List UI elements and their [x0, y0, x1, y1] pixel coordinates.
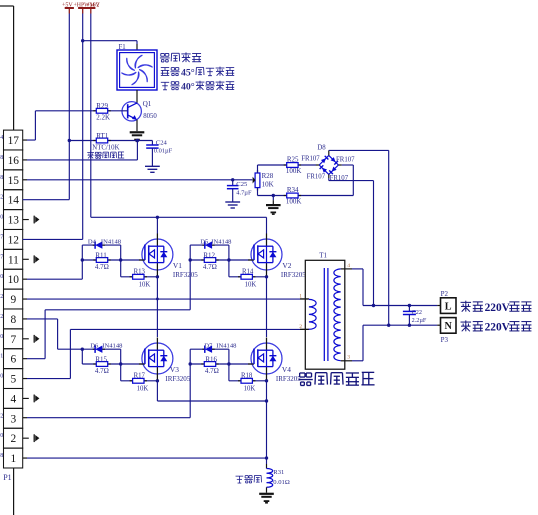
- svg-text:D4: D4: [88, 238, 97, 245]
- svg-text:8: 8: [0, 175, 3, 181]
- svg-text:7: 7: [0, 254, 3, 260]
- svg-text:IN4148: IN4148: [211, 238, 232, 245]
- svg-text:Q1: Q1: [143, 100, 152, 108]
- svg-text:2: 2: [0, 294, 3, 300]
- svg-text:R28: R28: [262, 172, 274, 180]
- svg-text:1: 1: [299, 293, 302, 299]
- svg-text:IN4148: IN4148: [102, 342, 123, 349]
- svg-text:100K: 100K: [286, 198, 302, 206]
- svg-text:R16: R16: [205, 355, 217, 363]
- svg-text:220V: 220V: [485, 322, 511, 334]
- svg-text:4.7Ω: 4.7Ω: [95, 263, 109, 271]
- svg-text:100K: 100K: [286, 167, 302, 175]
- svg-text:IN4148: IN4148: [216, 342, 237, 349]
- svg-text:T1: T1: [319, 252, 327, 260]
- svg-text:4: 4: [10, 393, 16, 405]
- svg-text:NTC/10K: NTC/10K: [92, 144, 119, 151]
- svg-text:R18: R18: [241, 373, 253, 380]
- svg-text:RT1: RT1: [96, 132, 109, 140]
- svg-text:V3: V3: [170, 365, 179, 374]
- svg-text:7: 7: [10, 334, 16, 346]
- svg-text:FR107: FR107: [336, 157, 355, 164]
- svg-text:V4: V4: [282, 365, 291, 374]
- svg-text:R34: R34: [287, 186, 299, 194]
- svg-text:13: 13: [8, 215, 20, 227]
- svg-text:R25: R25: [287, 155, 299, 163]
- svg-text:IN4148: IN4148: [101, 238, 122, 245]
- svg-text:9: 9: [10, 294, 16, 306]
- svg-text:12: 12: [8, 234, 20, 246]
- svg-text:V2: V2: [282, 261, 291, 270]
- svg-text:0: 0: [0, 334, 3, 340]
- svg-text:D8: D8: [317, 145, 326, 152]
- svg-text:+16V: +16V: [87, 3, 101, 9]
- svg-text:220V: 220V: [485, 302, 511, 314]
- svg-text:FR107: FR107: [307, 174, 326, 181]
- svg-text:R15: R15: [95, 355, 107, 363]
- svg-text:5: 5: [10, 374, 16, 386]
- svg-text:8: 8: [0, 155, 3, 161]
- svg-text:4.7Ω: 4.7Ω: [205, 367, 219, 375]
- svg-text:45°: 45°: [181, 67, 195, 78]
- svg-text:4.7Ω: 4.7Ω: [203, 263, 217, 271]
- svg-text:11: 11: [8, 254, 19, 266]
- svg-text:R13: R13: [134, 269, 146, 276]
- svg-text:0.01Ω: 0.01Ω: [273, 479, 290, 486]
- svg-text:FR107: FR107: [301, 155, 320, 162]
- svg-text:2: 2: [0, 195, 3, 201]
- svg-text:C24: C24: [156, 140, 168, 147]
- svg-text:F1: F1: [119, 44, 126, 51]
- svg-text:IRF3205: IRF3205: [173, 271, 198, 279]
- svg-text:15: 15: [8, 175, 20, 187]
- svg-text:P1: P1: [3, 473, 11, 482]
- svg-text:0: 0: [0, 215, 3, 221]
- svg-text:N: N: [445, 321, 453, 332]
- svg-text:2: 2: [0, 413, 3, 419]
- svg-text:14: 14: [8, 195, 20, 207]
- svg-text:R31: R31: [273, 469, 284, 476]
- svg-text:0: 0: [0, 274, 3, 280]
- svg-text:10K: 10K: [139, 281, 151, 288]
- svg-text:IRF3205: IRF3205: [165, 375, 190, 383]
- svg-text:8: 8: [10, 314, 16, 326]
- svg-text:IRF3205: IRF3205: [276, 375, 301, 383]
- svg-text:3: 3: [347, 355, 350, 361]
- svg-text:10K: 10K: [137, 385, 149, 392]
- svg-text:10K: 10K: [262, 181, 274, 189]
- svg-text:2: 2: [10, 433, 16, 445]
- svg-text:1: 1: [0, 354, 3, 360]
- svg-text:R11: R11: [95, 252, 107, 260]
- svg-text:10K: 10K: [245, 281, 257, 288]
- svg-text:L: L: [445, 301, 452, 312]
- svg-text:C25: C25: [236, 181, 248, 188]
- svg-text:10K: 10K: [244, 385, 256, 392]
- svg-text:D6: D6: [90, 342, 99, 349]
- svg-text:7: 7: [0, 234, 3, 240]
- svg-text:3: 3: [10, 413, 16, 425]
- svg-text:C22: C22: [412, 309, 422, 316]
- svg-text:2.2µF: 2.2µF: [412, 317, 427, 324]
- svg-text:6: 6: [10, 354, 16, 366]
- svg-text:8050: 8050: [143, 113, 157, 120]
- svg-text:D5: D5: [200, 238, 209, 245]
- svg-text:8: 8: [0, 453, 3, 459]
- svg-text:R29: R29: [96, 102, 108, 110]
- svg-text:0.01µF: 0.01µF: [154, 148, 173, 155]
- svg-text:1: 1: [10, 453, 16, 465]
- svg-text:4.7Ω: 4.7Ω: [95, 367, 109, 375]
- svg-text:R17: R17: [134, 373, 146, 380]
- svg-text:0: 0: [0, 374, 3, 380]
- svg-text:2: 2: [0, 314, 3, 320]
- svg-text:+5V: +5V: [62, 3, 73, 9]
- svg-text:10: 10: [8, 274, 20, 286]
- svg-text:V1: V1: [173, 261, 182, 270]
- svg-text:2.2K: 2.2K: [96, 114, 110, 122]
- svg-text:2: 2: [299, 324, 302, 330]
- svg-text:P3: P3: [441, 336, 449, 344]
- svg-text:0: 0: [0, 433, 3, 439]
- svg-text:16: 16: [8, 155, 20, 167]
- svg-text:R14: R14: [242, 269, 254, 276]
- svg-text:4: 4: [0, 135, 3, 141]
- svg-text:4: 4: [347, 263, 350, 269]
- svg-text:40°: 40°: [181, 82, 195, 93]
- svg-text:IRF3205: IRF3205: [281, 271, 306, 279]
- svg-text:D7: D7: [204, 342, 213, 349]
- svg-text:4.7µF: 4.7µF: [236, 190, 252, 197]
- svg-text:R12: R12: [203, 252, 215, 260]
- svg-text:P2: P2: [441, 290, 449, 298]
- svg-text:17: 17: [8, 135, 20, 147]
